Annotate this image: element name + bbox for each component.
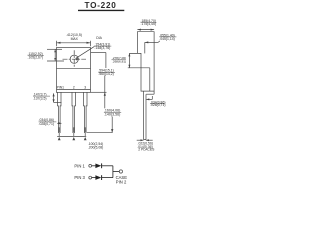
svg-text:TO-220: TO-220: [85, 1, 117, 10]
dimension: lead pitch .100(2,54)/.200(5,08): [57, 133, 103, 150]
svg-text:.137(3,5): .137(3,5): [33, 97, 47, 101]
dimension: hole dia .154(3,91)/.148(3,76) DIA: [75, 36, 111, 61]
svg-text:.268(6,81): .268(6,81): [112, 59, 126, 63]
title TO-220: [78, 1, 124, 11]
dimension: shoulder .147(3,7)/.137(3,5): [33, 92, 62, 102]
dimension: tab width .412(10,5) MAX: [57, 33, 91, 46]
mounting hole: [63, 50, 87, 68]
svg-text:3: 3: [84, 85, 86, 89]
svg-text:.045(1,14): .045(1,14): [159, 37, 174, 41]
diode D2: [95, 175, 101, 180]
svg-text:PIN1: PIN1: [57, 85, 64, 89]
lead 3 (front view): [84, 92, 88, 133]
svg-text:.148(3,76): .148(3,76): [94, 46, 110, 50]
node CASE, PIN 2 label: [116, 175, 128, 185]
svg-text:.560(14,2): .560(14,2): [98, 72, 113, 76]
svg-text:PIN 3: PIN 3: [74, 175, 85, 180]
svg-text:.105(2,67): .105(2,67): [28, 56, 43, 60]
wire junction to CASE terminal: [113, 171, 119, 173]
terminal CASE PIN 2: [119, 170, 122, 173]
diode D1: [95, 163, 101, 168]
pin number labels PIN1 2 3: [57, 85, 87, 89]
lead 2 (front view): [72, 92, 76, 133]
dimension: lead width front .034(0,86)/.028(0,71): [39, 118, 62, 126]
svg-text:.028(0,71): .028(0,71): [150, 103, 165, 107]
svg-text:PIN 2: PIN 2: [116, 179, 127, 184]
dimension: lead width side .034(0,86)/.028(0,71): [146, 96, 165, 107]
dimension label: .160(4,06)/.140(3,56): [104, 109, 121, 117]
wire PIN1 to D1 anode: [92, 165, 96, 167]
terminal PIN 1: [89, 164, 92, 167]
svg-text:DIA: DIA: [96, 36, 102, 40]
dimension: tab thickness .055(1,40)/.045(1,14): [145, 33, 177, 43]
svg-text:.175(4,45): .175(4,45): [141, 22, 156, 26]
svg-text:2 PLACES: 2 PLACES: [138, 148, 155, 152]
junction common cathode: [112, 166, 114, 178]
lead 1 (front view): [58, 92, 62, 133]
package side view outline: [129, 32, 154, 94]
dimension: hole position .115(2,92)/.105(2,67): [28, 49, 65, 61]
svg-text:PIN 1: PIN 1: [74, 163, 85, 168]
dimension: lead thickness .022(0,56)/.014(0,36) 2 PLACES: [137, 139, 155, 151]
dimension: body thickness .185(4,70)/.175(4,45): [137, 19, 156, 31]
svg-text:MAX: MAX: [71, 37, 79, 41]
wire D2 cathode to junction: [102, 177, 113, 179]
svg-text:.200(5,08): .200(5,08): [88, 146, 103, 150]
svg-text:.028(0,71): .028(0,71): [39, 122, 54, 126]
wire PIN3 to D2 anode: [92, 177, 96, 179]
wire D1 cathode to junction: [102, 165, 113, 167]
dimension: lead length .594(15,1)/.560(14,2): [87, 53, 115, 133]
svg-text:.140(3,56): .140(3,56): [104, 113, 120, 117]
svg-text:2: 2: [73, 85, 75, 89]
package front view body outline: [57, 48, 91, 93]
dimension: .278(7,06)/.268(6,81): [112, 53, 150, 67]
side view lead: [144, 91, 146, 140]
terminal PIN 3: [89, 176, 92, 179]
